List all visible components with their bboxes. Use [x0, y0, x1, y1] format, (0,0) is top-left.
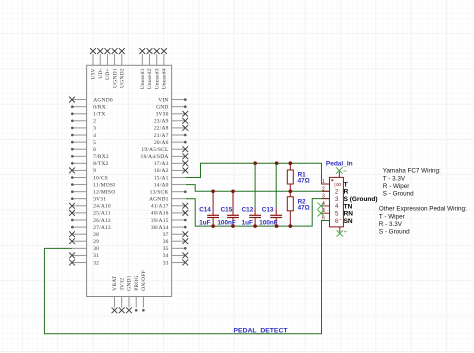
svg-text:Other Expression Pedal Wiring:: Other Expression Pedal Wiring:	[379, 205, 467, 212]
svg-text:1: 1	[322, 179, 325, 185]
svg-text:TN: TN	[344, 203, 353, 210]
connector pin 4 TN	[322, 201, 353, 210]
wire net GND: pin AGND1 to capacitor bottoms, R2 bottom and jack sleeve S	[186, 199, 330, 227]
svg-text:12/MISO: 12/MISO	[93, 190, 115, 196]
connector pin 3 S (Ground)	[322, 194, 378, 203]
svg-text:19/A5/SCL: 19/A5/SCL	[141, 147, 169, 153]
svg-text:AGND1: AGND1	[149, 197, 169, 203]
connector pin 2 R	[322, 186, 349, 195]
svg-text:C14: C14	[199, 207, 211, 214]
label C13 name	[262, 207, 274, 214]
resistor R1	[287, 163, 293, 191]
svg-text:5: 5	[93, 140, 96, 146]
junction C14 bottom on net GND	[211, 224, 215, 228]
svg-text:C15: C15	[221, 207, 233, 214]
svg-text:PEDAL_DETECT: PEDAL_DETECT	[234, 328, 289, 335]
svg-text:R - Wiper: R - Wiper	[383, 183, 410, 190]
svg-text:9: 9	[93, 168, 96, 174]
connector pin 1 T	[322, 179, 348, 188]
svg-text:0/RX: 0/RX	[93, 105, 106, 111]
svg-text:8/TX2: 8/TX2	[93, 161, 108, 167]
svg-text:100nF: 100nF	[217, 219, 235, 226]
svg-text:4: 4	[93, 133, 96, 139]
svg-text:GND: GND	[156, 105, 169, 111]
svg-text:T - Wiper: T - Wiper	[379, 213, 405, 220]
svg-text:PROG: PROG	[134, 275, 140, 290]
svg-text:2: 2	[322, 186, 325, 192]
svg-text:UD-: UD-	[98, 68, 104, 78]
junction C13 bottom on net GND	[275, 224, 279, 228]
svg-text:GND1: GND1	[127, 275, 133, 291]
junction C12 top on net A1	[253, 161, 257, 165]
wire net A1: pin 15/A1 to C12/C13 tops, R1 top and jack tip T	[186, 163, 330, 184]
svg-text:6: 6	[93, 147, 96, 153]
svg-text:35: 35	[163, 246, 169, 252]
junction C13 top on net A1	[275, 161, 279, 165]
svg-text:30: 30	[93, 246, 99, 252]
svg-text:R - 3.3V: R - 3.3V	[379, 221, 403, 228]
connector J1 Pedal_In (6.35mm jack) body	[330, 177, 344, 227]
svg-text:3V32: 3V32	[119, 278, 125, 291]
svg-text:1uF: 1uF	[199, 219, 210, 226]
IC left pin stubs with no-connect X and dot markers	[69, 97, 87, 266]
junction C14 top on net A0	[211, 190, 215, 194]
capacitor C15	[227, 191, 239, 226]
svg-text:18/A4/SDA: 18/A4/SDA	[141, 154, 169, 160]
svg-text:39/A15: 39/A15	[151, 218, 169, 224]
capacitor C12	[249, 163, 261, 226]
svg-text:27/A13: 27/A13	[93, 225, 111, 231]
svg-text:VBAT: VBAT	[112, 275, 118, 291]
svg-text:Unused2: Unused2	[147, 68, 153, 89]
connector pin 5 RN	[322, 208, 353, 217]
wire net PEDAL_DETECT: IC pin 30 down and across to jack pin 6 SN	[44, 221, 329, 334]
svg-text:17/A3: 17/A3	[154, 161, 169, 167]
capacitor C13	[270, 163, 282, 226]
IC right pin stubs with no-connect X and dot markers	[172, 98, 189, 265]
svg-text:Unused1: Unused1	[140, 68, 146, 89]
svg-text:31: 31	[93, 253, 99, 259]
svg-text:32: 32	[93, 260, 99, 266]
note Other Expression Pedal wiring text block	[379, 205, 467, 235]
svg-text:38/A14: 38/A14	[151, 225, 169, 231]
svg-text:T - 3.3V: T - 3.3V	[383, 175, 406, 182]
label C15 name	[221, 207, 233, 214]
svg-text:S - Ground: S - Ground	[379, 228, 410, 235]
svg-text:∞: ∞	[336, 182, 341, 189]
svg-text:26/A12: 26/A12	[93, 218, 111, 224]
label net PEDAL_DETECT	[234, 328, 289, 335]
capacitor C14	[207, 191, 219, 226]
label C12 value 1uF	[242, 219, 253, 226]
svg-text:37: 37	[163, 232, 169, 238]
junction C12 bottom on net GND	[253, 224, 257, 228]
svg-text:20/A6: 20/A6	[154, 140, 169, 146]
connector jack tip contact glyph inside box (pin 1 row)	[334, 182, 341, 189]
svg-text:R: R	[344, 189, 349, 196]
svg-text:13/SCK: 13/SCK	[150, 190, 169, 196]
svg-text:Pedal_In: Pedal_In	[326, 161, 353, 168]
note Yamaha FC7 wiring text block	[383, 168, 441, 198]
svg-text:AGND0: AGND0	[93, 97, 113, 103]
connector jack bottom pin with no-connect X	[337, 227, 348, 237]
svg-text:33: 33	[163, 260, 169, 266]
svg-text:41/A17: 41/A17	[151, 204, 169, 210]
svg-text:3V30: 3V30	[156, 112, 169, 118]
svg-text:29: 29	[93, 239, 99, 245]
svg-text:C13: C13	[262, 207, 274, 214]
wire net A0: pin 14/A0 to C14/C15 tops, R1-R2 divider node and jack ring R	[186, 185, 330, 192]
label R2 name	[298, 198, 307, 205]
svg-text:10/CS: 10/CS	[93, 175, 108, 181]
svg-text:47Ω: 47Ω	[298, 205, 310, 212]
svg-text:ON/OFF: ON/OFF	[141, 270, 147, 291]
microcontroller IC U1 (Teensy module) body	[87, 65, 172, 296]
label C15 value 100nF	[217, 219, 235, 226]
svg-text:25/A11: 25/A11	[93, 211, 111, 217]
label C13 value 100nF	[259, 219, 277, 226]
svg-text:S (Ground): S (Ground)	[344, 196, 378, 203]
svg-text:C12: C12	[242, 207, 254, 214]
IC bottom pin stubs (VBAT, 3V32, GND1, PROG, ON/OFF)	[112, 297, 145, 314]
svg-text:Unused3: Unused3	[154, 68, 160, 89]
junction R2 bottom on net GND	[289, 224, 293, 228]
svg-text:SN: SN	[344, 218, 353, 225]
svg-text:34: 34	[163, 253, 169, 259]
label C14 name	[199, 207, 211, 214]
junction C15 bottom on net GND	[231, 224, 235, 228]
svg-text:24/A10: 24/A10	[93, 204, 111, 210]
svg-text:16/A2: 16/A2	[154, 168, 169, 174]
svg-text:47Ω: 47Ω	[298, 178, 310, 185]
svg-text:T: T	[344, 181, 348, 188]
label connector name Pedal_In	[326, 161, 353, 168]
label C12 name	[242, 207, 254, 214]
svg-text:3: 3	[93, 126, 96, 132]
svg-text:UGND1: UGND1	[112, 68, 118, 88]
svg-text:∞: ∞	[343, 168, 346, 173]
svg-text:RN: RN	[344, 211, 354, 218]
label R2 value 47 ohm	[298, 205, 310, 212]
svg-text:1uF: 1uF	[242, 219, 253, 226]
svg-text:1/TX: 1/TX	[93, 112, 105, 118]
svg-text:21/A7: 21/A7	[154, 133, 169, 139]
svg-text:100nF: 100nF	[259, 219, 277, 226]
svg-text:14/A0: 14/A0	[154, 182, 169, 188]
IC top pin stubs (U5V, UD-, UD+, UGND1, UGND2, Unused1-4) with X markers	[90, 48, 167, 65]
junction C15 top on net A0	[231, 190, 235, 194]
junction R1 top on net A1	[289, 161, 293, 165]
svg-text:7/RX2: 7/RX2	[93, 154, 109, 160]
svg-text:Unused4: Unused4	[162, 68, 168, 89]
svg-text:23/A9: 23/A9	[154, 119, 169, 125]
svg-text:40/A16: 40/A16	[151, 211, 169, 217]
svg-text:28: 28	[93, 232, 99, 238]
resistor R2	[287, 191, 293, 226]
label C14 value 1uF	[199, 219, 210, 226]
label R1 value 47 ohm	[298, 178, 310, 185]
svg-text:2: 2	[93, 119, 96, 125]
connector pin 6 SN	[322, 216, 353, 225]
no-connect X on connector pin 4 TN	[318, 203, 325, 210]
svg-text:3: 3	[322, 194, 325, 200]
svg-text:S - Ground: S - Ground	[383, 191, 414, 198]
svg-text:Yamaha FC7 Wiring:: Yamaha FC7 Wiring:	[383, 168, 441, 175]
no-connect X on connector pin 5 RN	[318, 210, 325, 217]
svg-text:15/A1: 15/A1	[154, 175, 169, 181]
connector jack top pin with no-connect X	[336, 167, 346, 177]
svg-text:UD+: UD+	[105, 68, 111, 80]
svg-text:VIN: VIN	[158, 97, 168, 103]
svg-text:3V31: 3V31	[93, 197, 106, 203]
svg-text:U5V: U5V	[91, 68, 97, 79]
junction R1-R2 divider node on net A0	[289, 190, 293, 194]
svg-text:36: 36	[163, 239, 169, 245]
svg-text:~: ~	[339, 218, 342, 224]
label R1 name	[298, 171, 307, 178]
svg-text:22/A8: 22/A8	[154, 126, 169, 132]
svg-text:UGND2: UGND2	[120, 68, 126, 88]
svg-text:11/MOSI: 11/MOSI	[93, 182, 115, 188]
svg-text:↩: ↩	[344, 229, 348, 234]
connector jack switch glyph (pin 6 row)	[339, 218, 342, 224]
